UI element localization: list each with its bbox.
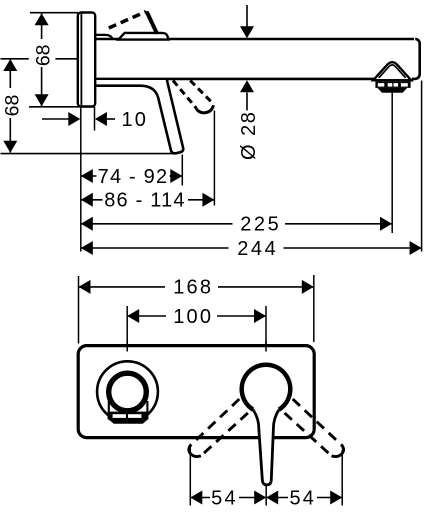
svg-text:68: 68 (32, 44, 54, 66)
svg-text:244: 244 (237, 238, 278, 260)
svg-text:74 - 92: 74 - 92 (98, 166, 169, 188)
svg-text:168: 168 (173, 277, 213, 299)
svg-text:Ø 28: Ø 28 (238, 111, 260, 160)
svg-text:100: 100 (173, 306, 213, 328)
svg-text:225: 225 (240, 214, 281, 236)
svg-text:68: 68 (1, 95, 23, 117)
svg-text:54: 54 (211, 487, 238, 509)
svg-text:86 - 114: 86 - 114 (104, 190, 186, 212)
svg-text:54: 54 (289, 487, 316, 509)
svg-text:10: 10 (121, 109, 148, 131)
